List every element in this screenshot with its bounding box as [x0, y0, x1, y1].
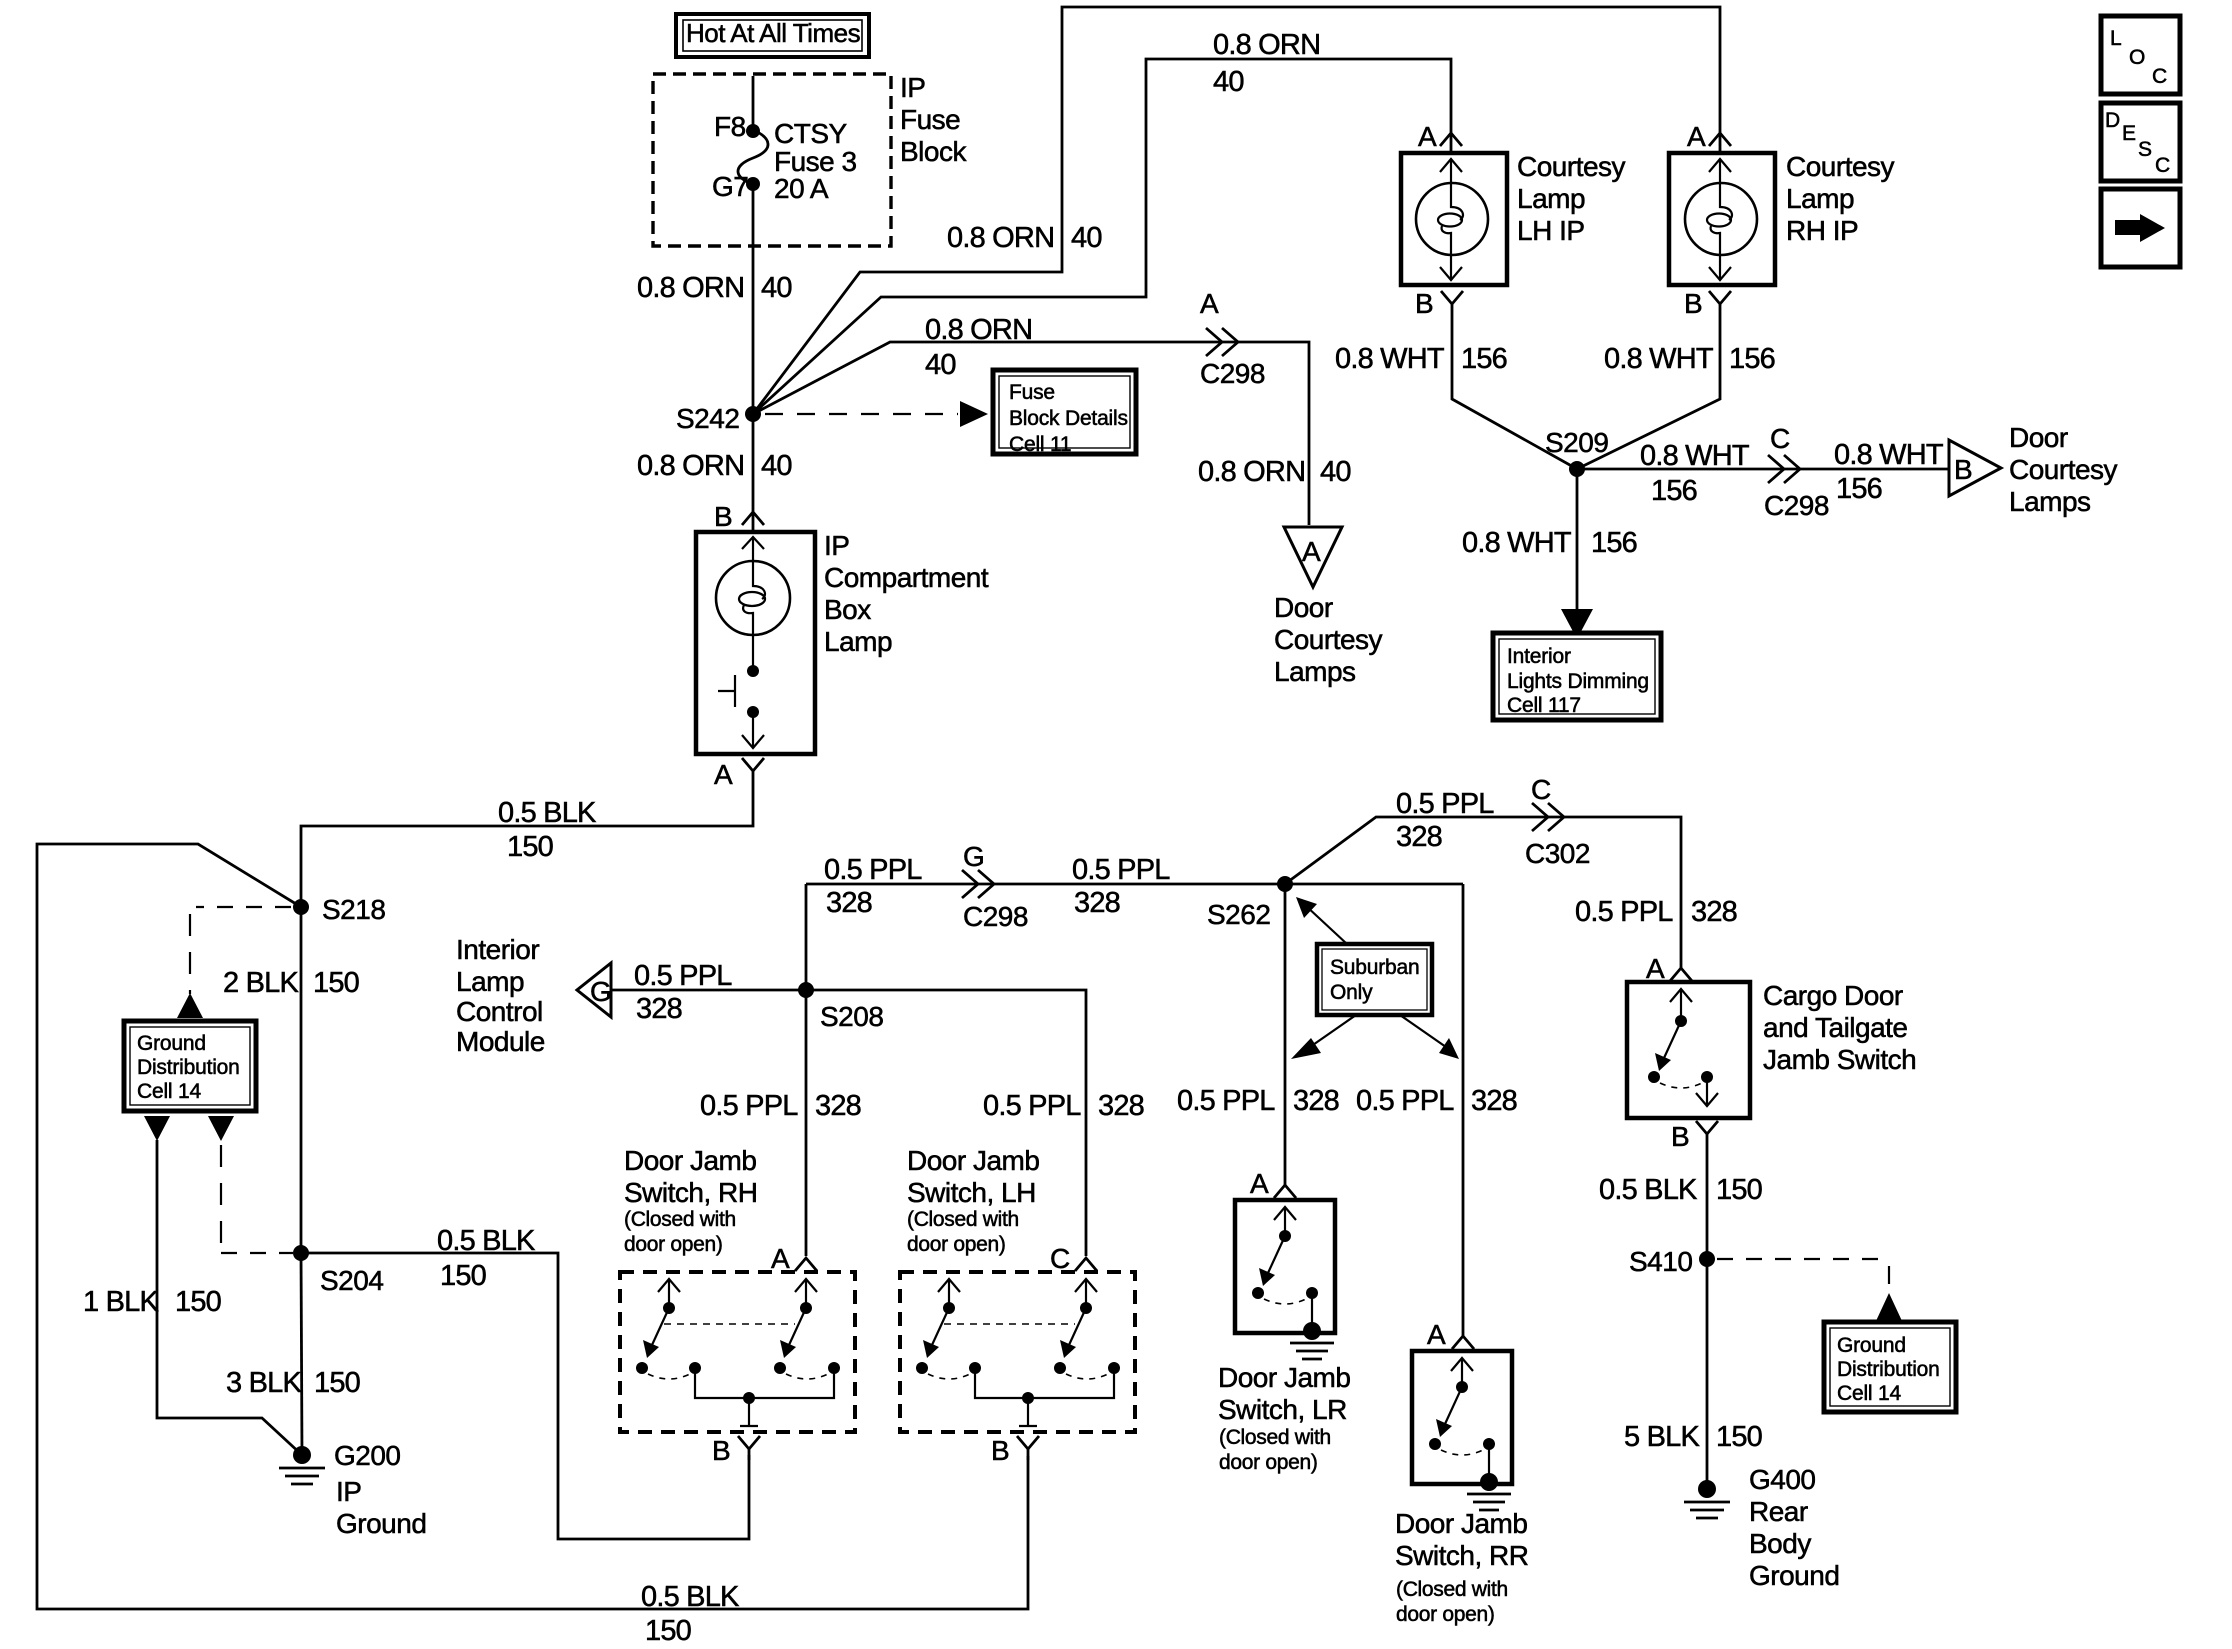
svg-text:Switch, LH: Switch, LH — [907, 1177, 1036, 1208]
arrow down-left below ground distribution box — [144, 1116, 170, 1141]
wire lamp A to S218 (0.5 BLK 150) — [301, 771, 753, 907]
svg-text:0.8 WHT: 0.8 WHT — [1834, 439, 1944, 471]
svg-text:0.5 PPL: 0.5 PPL — [1072, 854, 1170, 886]
svg-text:328: 328 — [826, 887, 872, 919]
internal dashed link line — [664, 1323, 795, 1325]
svg-text:150: 150 — [1716, 1421, 1762, 1453]
Door Jamb Switch RH (dashed box) — [620, 1272, 855, 1432]
svg-text:Door Jamb: Door Jamb — [624, 1145, 756, 1176]
wire S209 down (0.8 WHT 156) — [1576, 469, 1579, 610]
off-page connector B (door courtesy lamps) — [1949, 440, 2001, 496]
svg-text:328: 328 — [636, 993, 682, 1025]
svg-text:A: A — [1250, 1168, 1269, 1199]
wire S262 down to LR switch — [1284, 884, 1287, 1185]
svg-text:Switch, RR: Switch, RR — [1395, 1540, 1528, 1571]
svg-text:150: 150 — [645, 1615, 691, 1647]
svg-text:Courtesy: Courtesy — [1274, 624, 1383, 655]
pin B chevron courtesy lamp LH — [1441, 291, 1463, 304]
Ground Distribution Cell 14 box (right) — [1824, 1322, 1956, 1412]
svg-text:Lamp: Lamp — [456, 966, 524, 997]
wire fan S242 to top feed (RH lamp) — [753, 7, 1720, 414]
off-page connector A (door courtesy lamps, down triangle) — [1284, 527, 1342, 587]
svg-text:A: A — [1418, 121, 1437, 152]
svg-text:156: 156 — [1461, 343, 1507, 375]
pin A chevron door jamb switch RH — [795, 1258, 817, 1271]
svg-text:G200: G200 — [334, 1440, 401, 1471]
svg-text:A: A — [1646, 953, 1665, 984]
suburban arrow to LR wire — [1310, 1015, 1356, 1047]
svg-text:S242: S242 — [676, 403, 739, 434]
svg-text:G400: G400 — [1749, 1464, 1816, 1495]
svg-text:Body: Body — [1749, 1528, 1811, 1559]
fuse CTSY Fuse 3 20A (S-curve) — [738, 130, 768, 184]
svg-text:40: 40 — [1213, 66, 1244, 98]
svg-text:328: 328 — [1471, 1085, 1517, 1117]
svg-text:Cell 11: Cell 11 — [1009, 433, 1071, 456]
svg-text:Door Jamb: Door Jamb — [1395, 1508, 1527, 1539]
suburban arrow to RR wire — [1400, 1015, 1446, 1047]
svg-text:0.8 WHT: 0.8 WHT — [1640, 440, 1750, 472]
svg-text:156: 156 — [1651, 475, 1697, 507]
Hot At All Times header box — [676, 14, 869, 57]
right pole arrow up — [1075, 1279, 1097, 1292]
svg-text:IP: IP — [336, 1476, 361, 1507]
svg-text:LH IP: LH IP — [1517, 215, 1585, 246]
svg-text:40: 40 — [761, 450, 792, 482]
svg-text:O: O — [2129, 46, 2145, 69]
svg-text:(Closed with: (Closed with — [1396, 1578, 1508, 1601]
left pole arrow up — [938, 1279, 960, 1292]
svg-text:150: 150 — [175, 1286, 221, 1318]
svg-text:328: 328 — [1293, 1085, 1339, 1117]
Door Jamb Switch RR — [1412, 1351, 1512, 1484]
svg-text:0.8 ORN: 0.8 ORN — [925, 314, 1032, 346]
svg-text:S208: S208 — [820, 1001, 883, 1032]
svg-text:F8: F8 — [714, 111, 746, 142]
ground G200 — [293, 1446, 311, 1464]
svg-text:0.5 BLK: 0.5 BLK — [498, 797, 597, 829]
svg-text:328: 328 — [815, 1090, 861, 1122]
Cargo Door and Tailgate Jamb Switch — [1627, 982, 1750, 1118]
pin A chevron courtesy lamp RH IP — [1709, 133, 1731, 146]
Fuse Block Details Cell 11 box — [993, 370, 1136, 456]
svg-text:150: 150 — [507, 831, 553, 863]
svg-text:G: G — [963, 841, 984, 872]
svg-text:Door Jamb: Door Jamb — [1218, 1362, 1350, 1393]
svg-text:B: B — [714, 501, 732, 532]
legend box DESC — [2101, 103, 2180, 181]
svg-text:Ground: Ground — [137, 1032, 206, 1055]
svg-text:0.8 ORN: 0.8 ORN — [637, 450, 744, 482]
dashed reference S410 to ground distribution — [1717, 1258, 1887, 1260]
lamp internal arrow down at pin A — [752, 712, 754, 747]
svg-text:E: E — [2122, 122, 2136, 145]
wire fan S242 to connector C298 and door courtesy lamps — [753, 342, 1309, 525]
svg-text:B: B — [1671, 1121, 1689, 1152]
dashed reference ground distribution to S204 — [220, 1145, 222, 1253]
svg-text:Lamps: Lamps — [1274, 656, 1356, 687]
wire 1 BLK from ground distribution to G200 — [157, 1140, 302, 1455]
svg-text:328: 328 — [1691, 896, 1737, 928]
svg-text:Ground: Ground — [336, 1508, 426, 1539]
svg-text:B: B — [712, 1435, 730, 1466]
wire S208 to LH switch pin C — [806, 990, 1086, 1256]
svg-text:Door Jamb: Door Jamb — [907, 1145, 1039, 1176]
right lever with arrowhead — [789, 1308, 806, 1345]
ground at door jamb switch LR — [1303, 1322, 1321, 1340]
svg-text:Door: Door — [1274, 592, 1333, 623]
IP Fuse Block dashed box — [653, 74, 891, 246]
Suburban Only note box — [1317, 944, 1432, 1015]
svg-text:Fuse: Fuse — [900, 104, 960, 135]
svg-text:B: B — [1954, 454, 1972, 485]
arrow toward S410 (ground distribution reference) — [1876, 1293, 1902, 1321]
wire S204 down to G200 (3 BLK) — [301, 1253, 302, 1455]
node S208 — [798, 982, 814, 998]
svg-text:Courtesy: Courtesy — [2009, 454, 2118, 485]
right pole arrow up — [795, 1279, 817, 1292]
svg-text:156: 156 — [1729, 343, 1775, 375]
svg-text:Interior: Interior — [456, 934, 539, 965]
left pole arrow up — [658, 1279, 680, 1292]
svg-text:328: 328 — [1074, 887, 1120, 919]
svg-text:0.8 WHT: 0.8 WHT — [1462, 527, 1572, 559]
svg-text:40: 40 — [925, 349, 956, 381]
svg-text:Switch, LR: Switch, LR — [1218, 1394, 1347, 1425]
ground at door jamb switch RR — [1480, 1473, 1498, 1491]
svg-text:G7: G7 — [712, 171, 748, 202]
svg-text:C: C — [1531, 774, 1551, 805]
arrow down-right below ground distribution box — [208, 1116, 234, 1141]
svg-text:A: A — [1687, 121, 1706, 152]
svg-text:Cell 117: Cell 117 — [1507, 694, 1581, 717]
wire S204 to RH door jamb switch pin B (0.5 BLK) — [301, 1253, 749, 1539]
switch lever (open) — [734, 675, 736, 707]
legend box LOC — [2101, 16, 2180, 94]
wire S242 down to IP compartment lamp pin B — [752, 414, 755, 532]
connector C298 chevrons on ORN wire — [1206, 328, 1222, 356]
node S242 — [745, 406, 761, 422]
svg-text:A: A — [771, 1243, 790, 1274]
switch contact upper — [747, 665, 759, 677]
wire S410 down to G400 (5 BLK) — [1706, 1259, 1709, 1489]
svg-text:0.5 BLK: 0.5 BLK — [1599, 1174, 1698, 1206]
svg-text:Lights Dimming: Lights Dimming — [1507, 670, 1649, 693]
svg-text:Distribution: Distribution — [1837, 1358, 1940, 1381]
wire S209 to connector C298 and door courtesy lamps — [1577, 468, 1949, 471]
pin B chevron of IP compartment box lamp — [742, 512, 764, 525]
ground G400 — [1698, 1480, 1716, 1498]
svg-text:S204: S204 — [320, 1265, 383, 1296]
svg-text:B: B — [1415, 288, 1433, 319]
node S209 — [1569, 461, 1585, 477]
svg-text:and Tailgate: and Tailgate — [1763, 1012, 1908, 1043]
svg-text:Cargo Door: Cargo Door — [1763, 980, 1903, 1011]
wire fan S242 to LH lamp — [753, 59, 1451, 414]
arrowhead into fuse block details — [960, 401, 988, 427]
svg-text:Switch, RH: Switch, RH — [624, 1177, 757, 1208]
svg-text:0.5 BLK: 0.5 BLK — [437, 1225, 536, 1257]
Door Jamb Switch LH (dashed box) — [900, 1272, 1135, 1432]
wire G to S208 (0.5 PPL 328) — [611, 989, 806, 992]
terminal F8 — [746, 124, 760, 138]
pin A chevron cargo door switch — [1670, 968, 1692, 981]
Courtesy Lamp RH IP — [1669, 153, 1775, 285]
svg-text:328: 328 — [1098, 1090, 1144, 1122]
dashed reference line S242 to fuse block details — [765, 413, 958, 415]
svg-text:0.5 PPL: 0.5 PPL — [1396, 788, 1494, 820]
svg-text:Courtesy: Courtesy — [1786, 151, 1895, 182]
pin A chevron of IP compartment box lamp — [742, 758, 764, 771]
pin B chevron door jamb switch RH — [738, 1436, 760, 1449]
off-page connector G (interior lamp control module, left triangle) — [577, 963, 611, 1017]
svg-text:(Closed with: (Closed with — [1219, 1426, 1331, 1449]
suburban arrow to S262 — [1305, 905, 1347, 944]
svg-text:0.5 PPL: 0.5 PPL — [983, 1090, 1081, 1122]
svg-text:door open): door open) — [1396, 1603, 1495, 1626]
svg-text:156: 156 — [1836, 473, 1882, 505]
node S204 — [293, 1245, 309, 1261]
svg-text:Cell 14: Cell 14 — [137, 1080, 201, 1103]
svg-text:0.5 PPL: 0.5 PPL — [1356, 1085, 1454, 1117]
svg-text:IP: IP — [824, 530, 849, 561]
svg-text:Control: Control — [456, 996, 543, 1027]
svg-text:328: 328 — [1396, 821, 1442, 853]
svg-text:C298: C298 — [963, 901, 1028, 932]
svg-text:S218: S218 — [322, 894, 385, 925]
svg-text:A: A — [1427, 1319, 1446, 1350]
svg-text:G: G — [590, 976, 611, 1007]
wire RR riser — [1462, 884, 1465, 1336]
wire PPL bus S208 top to S262 to RR corner — [806, 883, 1463, 886]
node S410 — [1699, 1251, 1715, 1267]
node S262 — [1277, 876, 1293, 892]
Door Jamb Switch LR — [1235, 1200, 1335, 1333]
svg-text:0.5 PPL: 0.5 PPL — [700, 1090, 798, 1122]
legend box arrow — [2101, 189, 2180, 267]
svg-text:150: 150 — [1716, 1174, 1762, 1206]
svg-text:door open): door open) — [624, 1233, 723, 1256]
Interior Lights Dimming Cell 117 box — [1493, 633, 1661, 720]
wire from fuse block top to fuse F8 — [752, 76, 755, 130]
wire PPL riser S208 column — [805, 884, 808, 1256]
svg-text:RH IP: RH IP — [1786, 215, 1858, 246]
dashed reference S218 to ground distribution — [196, 906, 291, 908]
svg-text:Lamp: Lamp — [824, 626, 892, 657]
arrow into interior lights dimming — [1561, 609, 1593, 639]
svg-text:C: C — [1770, 423, 1790, 454]
svg-text:S262: S262 — [1207, 899, 1270, 930]
output bus — [975, 1368, 1114, 1398]
bulb circle RH — [1685, 183, 1757, 255]
svg-text:Lamps: Lamps — [2009, 486, 2091, 517]
svg-text:Interior: Interior — [1507, 645, 1571, 668]
svg-text:Jamb Switch: Jamb Switch — [1763, 1044, 1916, 1075]
svg-text:0.8 ORN: 0.8 ORN — [1198, 456, 1305, 488]
svg-text:40: 40 — [761, 272, 792, 304]
svg-text:Box: Box — [824, 594, 871, 625]
svg-text:IP: IP — [900, 72, 925, 103]
svg-text:Lamp: Lamp — [1786, 183, 1854, 214]
svg-text:B: B — [991, 1435, 1009, 1466]
svg-text:0.8 WHT: 0.8 WHT — [1335, 343, 1445, 375]
svg-text:S: S — [2138, 138, 2152, 161]
wire S262 diagonal to C302 and cargo door switch — [1285, 817, 1681, 968]
svg-text:Ground: Ground — [1749, 1560, 1839, 1591]
output bus — [695, 1368, 834, 1398]
svg-text:0.5 PPL: 0.5 PPL — [824, 854, 922, 886]
svg-text:Door: Door — [2009, 422, 2068, 453]
svg-text:156: 156 — [1591, 527, 1637, 559]
filament loop — [753, 561, 765, 599]
svg-text:Suburban: Suburban — [1330, 956, 1419, 979]
svg-text:150: 150 — [440, 1260, 486, 1292]
svg-text:D: D — [2105, 109, 2120, 132]
svg-text:Fuse: Fuse — [1009, 381, 1055, 404]
svg-text:1 BLK: 1 BLK — [83, 1286, 159, 1318]
svg-text:0.8 ORN: 0.8 ORN — [947, 222, 1054, 254]
bulb circle — [716, 561, 790, 635]
wire S218 down to S204 (2 BLK) — [300, 907, 303, 1253]
svg-text:Module: Module — [456, 1026, 545, 1057]
wire RH lamp B to S209 (0.8 WHT) — [1577, 304, 1720, 469]
pin B chevron courtesy lamp RH — [1709, 291, 1731, 304]
connector C298 chevrons on WHT wire — [1768, 455, 1784, 483]
svg-text:door open): door open) — [907, 1233, 1006, 1256]
svg-text:0.8 ORN: 0.8 ORN — [1213, 29, 1320, 61]
svg-text:C298: C298 — [1200, 358, 1265, 389]
svg-text:Compartment: Compartment — [824, 562, 989, 593]
wire LH lamp B to S209 (0.8 WHT) — [1452, 304, 1577, 469]
svg-text:(Closed with: (Closed with — [907, 1208, 1019, 1231]
svg-text:L: L — [2110, 27, 2121, 50]
terminal G7 — [746, 177, 760, 191]
svg-text:C: C — [2152, 65, 2167, 88]
svg-text:A: A — [1302, 536, 1321, 567]
svg-text:40: 40 — [1071, 222, 1102, 254]
pin A chevron door jamb switch RR — [1452, 1336, 1474, 1349]
svg-text:0.5 PPL: 0.5 PPL — [1177, 1085, 1275, 1117]
svg-text:Lamp: Lamp — [1517, 183, 1585, 214]
svg-text:Hot At All Times: Hot At All Times — [686, 18, 861, 48]
svg-text:20 A: 20 A — [774, 173, 829, 204]
pin B chevron door jamb switch LH — [1017, 1436, 1039, 1449]
pin A chevron courtesy lamp LH IP — [1440, 133, 1462, 146]
svg-text:150: 150 — [314, 1367, 360, 1399]
svg-text:0.8 WHT: 0.8 WHT — [1604, 343, 1714, 375]
svg-text:0.5 BLK: 0.5 BLK — [641, 1581, 740, 1613]
Ground Distribution Cell 14 box (left) — [124, 1021, 256, 1111]
svg-text:Block Details: Block Details — [1009, 407, 1128, 430]
svg-text:A: A — [1200, 288, 1219, 319]
pin B chevron cargo door switch — [1696, 1121, 1718, 1134]
svg-text:C: C — [2155, 154, 2170, 177]
svg-text:S410: S410 — [1629, 1246, 1692, 1277]
svg-text:40: 40 — [1320, 456, 1351, 488]
wire cargo B down to S410 (0.5 BLK) — [1706, 1134, 1709, 1259]
svg-text:2 BLK: 2 BLK — [223, 967, 299, 999]
arrow toward S218 (ground distribution reference) — [177, 993, 203, 1018]
svg-text:Block: Block — [900, 136, 967, 167]
wire fuse G7 down to S242 — [752, 184, 755, 414]
bulb circle LH — [1416, 183, 1488, 255]
svg-text:C302: C302 — [1525, 838, 1590, 869]
svg-text:5 BLK: 5 BLK — [1624, 1421, 1700, 1453]
svg-text:Courtesy: Courtesy — [1517, 151, 1626, 182]
wire left loop from S218 to bottom bus — [37, 844, 1028, 1609]
svg-text:Ground: Ground — [1837, 1334, 1906, 1357]
left lever with arrowhead — [652, 1308, 669, 1345]
svg-text:B: B — [1684, 288, 1702, 319]
svg-text:0.5 PPL: 0.5 PPL — [634, 960, 732, 992]
svg-text:door open): door open) — [1219, 1451, 1318, 1474]
node S218 — [293, 899, 309, 915]
svg-text:Distribution: Distribution — [137, 1056, 240, 1079]
switch contact lower — [747, 706, 759, 718]
svg-text:Cell 14: Cell 14 — [1837, 1382, 1901, 1405]
svg-text:0.5 PPL: 0.5 PPL — [1575, 896, 1673, 928]
connector C302 chevrons — [1532, 803, 1548, 831]
connector C298 chevrons on PPL wire (G cavity) — [962, 870, 978, 898]
pin A chevron door jamb switch LR — [1274, 1185, 1296, 1198]
svg-text:A: A — [714, 759, 733, 790]
svg-text:Rear: Rear — [1749, 1496, 1808, 1527]
svg-text:3 BLK: 3 BLK — [226, 1367, 302, 1399]
IP Compartment Box Lamp — [696, 532, 815, 754]
svg-text:C298: C298 — [1764, 490, 1829, 521]
lamp internal arrow up at pin B — [742, 537, 764, 549]
Courtesy Lamp LH IP — [1401, 153, 1507, 285]
svg-text:C: C — [1050, 1243, 1070, 1274]
svg-text:150: 150 — [313, 967, 359, 999]
svg-text:0.8 ORN: 0.8 ORN — [637, 272, 744, 304]
pin C chevron door jamb switch LH — [1075, 1258, 1097, 1271]
svg-text:Only: Only — [1330, 981, 1373, 1004]
svg-text:(Closed with: (Closed with — [624, 1208, 736, 1231]
svg-text:CTSY: CTSY — [774, 118, 848, 149]
svg-text:S209: S209 — [1545, 427, 1608, 458]
